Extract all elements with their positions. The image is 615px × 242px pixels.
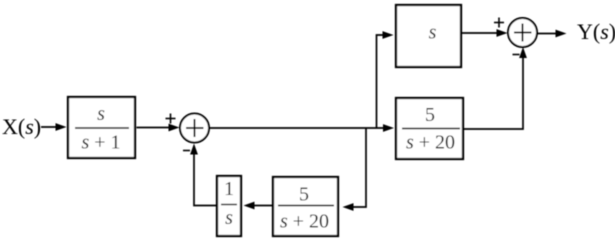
wire input arrow into block G1 xyxy=(41,123,67,131)
wire G2 to summing junction S2 xyxy=(462,29,508,37)
wire G1 to summing junction S1 xyxy=(137,124,180,132)
svg-text:s: s xyxy=(97,103,105,125)
svg-text:1: 1 xyxy=(224,178,234,200)
block G4 1/s xyxy=(217,176,241,236)
svg-text:s: s xyxy=(429,22,437,44)
plus sign label at S1 xyxy=(166,114,176,124)
block G2 s xyxy=(396,5,461,67)
svg-text:s + 1: s + 1 xyxy=(81,132,120,154)
block G5 5/(s+20) bottom xyxy=(273,177,338,236)
minus sign label at S1 xyxy=(183,150,190,152)
block G1 s/(s+1) xyxy=(68,97,135,158)
wire S2 to output Y(s) xyxy=(537,30,567,38)
svg-text:s + 20: s + 20 xyxy=(406,132,455,154)
wire main line S1 to block G3 xyxy=(209,124,394,132)
svg-text:X(s): X(s) xyxy=(2,114,41,139)
wire branch down into block G5 xyxy=(343,128,367,211)
summing junction S2 xyxy=(508,18,537,47)
wire branch up to block G2 xyxy=(377,31,394,128)
summing junction S1 xyxy=(180,114,209,143)
wire G4 output up into S1 minus input xyxy=(190,144,216,206)
block G3 5/(s+20) right xyxy=(396,98,463,159)
wire G5 to block G4 xyxy=(244,202,273,210)
svg-text:5: 5 xyxy=(299,184,309,206)
svg-text:5: 5 xyxy=(425,104,435,126)
svg-text:s: s xyxy=(225,207,233,229)
wire G3 output up into S2 minus input xyxy=(464,47,527,129)
svg-text:Y(s): Y(s) xyxy=(577,19,615,44)
plus sign label at S2 xyxy=(494,18,504,28)
minus sign label at S2 xyxy=(513,54,520,56)
svg-text:s + 20: s + 20 xyxy=(280,211,329,233)
